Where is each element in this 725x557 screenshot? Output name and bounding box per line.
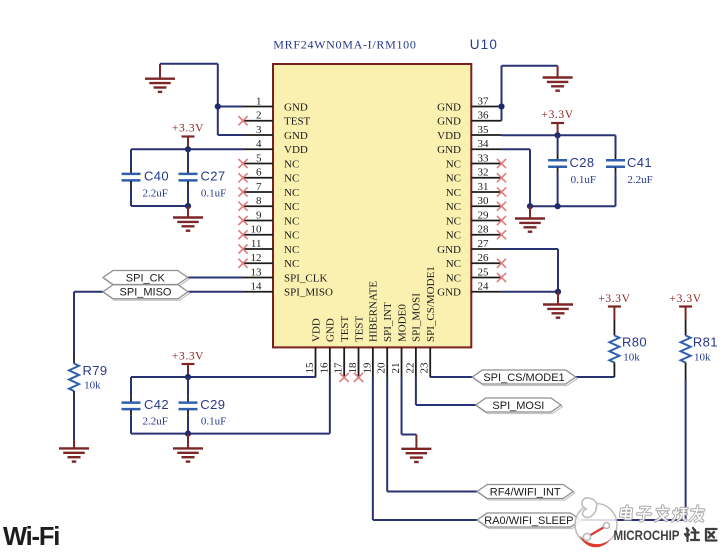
- capacitor C42: [122, 403, 141, 410]
- svg-text:21: 21: [390, 363, 402, 374]
- wire pin27: [502, 248, 559, 250]
- junction pin24: [555, 289, 561, 295]
- svg-text:0.1uF: 0.1uF: [201, 188, 226, 200]
- svg-text:2.2uF: 2.2uF: [627, 174, 652, 186]
- ground top-right: [543, 66, 573, 91]
- capacitor C28: [548, 160, 567, 167]
- svg-text:NC: NC: [284, 258, 299, 270]
- wire C40-C27 bottom rail: [131, 205, 188, 207]
- svg-text:SPI_CLK: SPI_CLK: [284, 272, 327, 284]
- U10 pin 31 (NC): [446, 181, 506, 199]
- svg-text:SPI_MOSI: SPI_MOSI: [492, 400, 544, 412]
- svg-text:2.2uF: 2.2uF: [143, 415, 168, 427]
- capacitor C27: [179, 174, 198, 181]
- wire pin1 to vertical: [218, 106, 243, 108]
- svg-text:11: 11: [251, 238, 262, 250]
- U10 pin 35 (VDD): [437, 124, 501, 142]
- U10 pin 13 (SPI_CLK): [243, 266, 327, 284]
- wire C41 bottom stem: [615, 167, 617, 206]
- label C28: [570, 155, 595, 170]
- wire SPI_MISO to pin14: [188, 291, 243, 293]
- svg-text:NC: NC: [446, 158, 461, 170]
- svg-text:+3.3V: +3.3V: [598, 293, 630, 305]
- svg-text:GND: GND: [437, 244, 461, 256]
- value 2.2uF (C41): [627, 174, 652, 186]
- designator R81: [693, 335, 718, 350]
- U10 pin 25 (NC): [446, 266, 506, 284]
- svg-text:TEST: TEST: [339, 315, 351, 342]
- value 2.2uF (C40): [143, 188, 168, 200]
- svg-text:18: 18: [347, 362, 359, 374]
- svg-text:C41: C41: [627, 155, 652, 170]
- wire pin22 to SPI_MOSI: [416, 377, 476, 405]
- svg-text:NC: NC: [446, 187, 461, 199]
- svg-text:2: 2: [256, 110, 262, 122]
- svg-text:Wi-Fi: Wi-Fi: [3, 523, 59, 551]
- wire top-left ground horizontal: [160, 63, 218, 65]
- svg-text:GND: GND: [437, 116, 461, 128]
- watermark text MICROCHIP: [614, 527, 680, 543]
- svg-text:NC: NC: [284, 187, 299, 199]
- wire C40 bottom stem: [130, 181, 132, 206]
- junction pin37: [498, 103, 504, 109]
- wire R81 down to RA0 net: [685, 380, 687, 520]
- sheet title Wi-Fi: [3, 523, 59, 551]
- power +3.3V (R80): [598, 293, 630, 321]
- wire pins27-24 vertical: [557, 249, 559, 292]
- capacitor C41: [606, 160, 625, 167]
- power +3.3V (pin 15): [172, 350, 204, 377]
- svg-text:16: 16: [318, 362, 330, 374]
- junction C29 top: [185, 374, 191, 380]
- net label SPI_MOSI: [476, 398, 563, 414]
- svg-text:SPI_CK: SPI_CK: [126, 272, 166, 284]
- wire pin21 to ground: [402, 377, 417, 434]
- svg-text:NC: NC: [446, 173, 461, 185]
- svg-text:27: 27: [478, 238, 490, 250]
- U10 pin 26 (NC): [446, 252, 506, 270]
- resistor R80: [609, 321, 619, 378]
- wire SPI_CK to pin13: [188, 277, 243, 279]
- power +3.3V (R81): [670, 293, 702, 321]
- U10 pin 34 (GND): [437, 138, 501, 156]
- junction C27 bottom: [185, 203, 191, 209]
- svg-text:3: 3: [256, 124, 262, 136]
- value 0.1uF (C29): [201, 415, 226, 427]
- wire C28 top stem: [557, 135, 559, 159]
- U10 pin 17 (TEST): [333, 315, 351, 382]
- svg-text:32: 32: [478, 167, 489, 179]
- wire bottom rail pin16: [131, 433, 330, 435]
- U10 pin 5 (NC): [238, 152, 299, 170]
- svg-text:0.1uF: 0.1uF: [571, 174, 596, 186]
- power +3.3V (pin 35): [542, 109, 574, 135]
- ground below R79: [59, 440, 89, 462]
- capacitor C40: [122, 174, 141, 181]
- wire pin15 rail: [131, 376, 316, 378]
- svg-text:14: 14: [251, 281, 263, 293]
- U10 pin 20 (SPI_INT): [376, 302, 394, 377]
- svg-text:VDD: VDD: [437, 130, 461, 142]
- svg-text:17: 17: [333, 362, 345, 374]
- wire C27 bottom stem: [187, 181, 189, 206]
- svg-text:22: 22: [404, 363, 416, 374]
- junction +3.3V pin4 rail: [185, 146, 191, 152]
- svg-text:SPI_MISO: SPI_MISO: [120, 287, 172, 299]
- svg-text:7: 7: [256, 181, 262, 193]
- resistor R79: [69, 355, 79, 400]
- U10 pin 10 (NC): [238, 224, 299, 242]
- svg-text:10k: 10k: [694, 352, 711, 364]
- designator U10: [470, 37, 498, 52]
- svg-text:NC: NC: [284, 201, 299, 213]
- U10 pin 2 (TEST): [238, 110, 310, 128]
- wire RA0/WIFI_SLEEP to R81: [581, 519, 686, 521]
- ground below C28 rail: [515, 206, 545, 232]
- svg-text:U10: U10: [470, 37, 498, 52]
- U10 pin 23 (SPI_CS/MODE1): [419, 266, 437, 377]
- label C29: [200, 397, 225, 412]
- svg-text:NC: NC: [284, 173, 299, 185]
- svg-text:SPI_INT: SPI_INT: [382, 302, 394, 342]
- value 2.2uF (C42): [143, 415, 168, 427]
- U10 pin 1 (GND): [243, 95, 308, 113]
- wire pins36-37 vertical: [501, 66, 503, 121]
- svg-text:8: 8: [256, 195, 262, 207]
- wire top-right horizontal: [502, 65, 558, 67]
- wire SPI_CS/MODE1 to R80: [576, 376, 615, 378]
- junction pin1: [215, 103, 221, 109]
- U10 pin 16 (GND): [318, 318, 336, 377]
- value 10k (R79): [84, 379, 101, 391]
- designator R79: [83, 363, 108, 378]
- svg-text:C28: C28: [570, 155, 595, 170]
- ground below C29: [173, 434, 203, 462]
- wire C42 bottom stem: [130, 410, 132, 434]
- svg-text:NC: NC: [446, 215, 461, 227]
- svg-text:2.2uF: 2.2uF: [143, 188, 168, 200]
- svg-text:NC: NC: [284, 215, 299, 227]
- svg-text:NC: NC: [446, 258, 461, 270]
- svg-text:20: 20: [376, 362, 388, 374]
- svg-text:29: 29: [478, 209, 490, 221]
- svg-text:36: 36: [478, 110, 490, 122]
- designator R80: [622, 335, 647, 350]
- wire C29 top stem: [187, 377, 189, 402]
- svg-text:TEST: TEST: [284, 116, 311, 128]
- junction C28 bottom: [555, 203, 561, 209]
- svg-text:35: 35: [478, 124, 490, 136]
- U10 pin 28 (NC): [446, 224, 506, 242]
- svg-text:MODE0: MODE0: [396, 304, 408, 342]
- label C41: [627, 155, 652, 170]
- net label SPI_CK: [103, 271, 189, 287]
- U10 pin 32 (NC): [446, 167, 506, 185]
- svg-text:R81: R81: [693, 335, 718, 350]
- U10 pin 24 (GND): [437, 281, 501, 299]
- wire pin3 to vertical: [218, 134, 243, 136]
- wire top-left ground vertical: [217, 64, 219, 135]
- wire pin19 drop (RA0/WIFI_SLEEP): [373, 377, 477, 520]
- svg-text:+3.3V: +3.3V: [542, 109, 574, 121]
- U10 pin 27 (GND): [437, 238, 501, 256]
- net label RA0/WIFI_SLEEP: [477, 513, 582, 529]
- svg-text:28: 28: [478, 224, 490, 236]
- svg-text:34: 34: [478, 138, 490, 150]
- svg-text:RF4/WIFI_INT: RF4/WIFI_INT: [490, 486, 561, 498]
- wire +3.3V rail to pin 4: [131, 148, 243, 150]
- value 0.1uF (C28): [571, 174, 596, 186]
- U10 pin 19 (HIBERNATE): [361, 281, 379, 378]
- U10 pin 14 (SPI_MISO): [243, 281, 333, 299]
- watermark text she-qu: [685, 528, 717, 541]
- svg-text:10: 10: [251, 224, 263, 236]
- svg-text:R79: R79: [83, 363, 108, 378]
- U10 pin 37 (GND): [437, 95, 501, 113]
- svg-text:1: 1: [256, 95, 262, 107]
- wire pin23 to SPI_CS/MODE1: [430, 376, 472, 378]
- svg-text:R80: R80: [622, 335, 647, 350]
- U10 pin 11 (NC): [238, 238, 299, 256]
- svg-text:33: 33: [478, 152, 490, 164]
- wire C28 bottom stem: [557, 167, 559, 206]
- svg-text:GND: GND: [284, 130, 308, 142]
- svg-text:GND: GND: [437, 287, 461, 299]
- svg-text:SPI_MISO: SPI_MISO: [284, 287, 333, 299]
- svg-text:25: 25: [478, 266, 490, 278]
- svg-text:4: 4: [256, 138, 262, 150]
- svg-text:GND: GND: [437, 144, 461, 156]
- watermark logo circle: [575, 498, 617, 547]
- wire pin20 drop (RF4/WIFI_INT): [387, 377, 477, 491]
- svg-text:NC: NC: [284, 158, 299, 170]
- value label MRF24WN0MA-I/RM100: [273, 38, 416, 52]
- svg-text:SPI_MOSI: SPI_MOSI: [411, 293, 423, 342]
- wire R79 to ground: [73, 400, 75, 441]
- svg-text:9: 9: [256, 209, 262, 221]
- label C40: [144, 168, 169, 183]
- watermark text dian-zi-fa-shao-you (outlined): [620, 506, 705, 521]
- svg-text:NC: NC: [446, 272, 461, 284]
- svg-text:23: 23: [419, 362, 431, 374]
- label C27: [201, 168, 226, 183]
- U10 pin 7 (NC): [238, 181, 299, 199]
- svg-text:RA0/WIFI_SLEEP: RA0/WIFI_SLEEP: [484, 515, 573, 527]
- capacitor C29: [179, 403, 198, 410]
- svg-text:10k: 10k: [84, 379, 101, 391]
- power +3.3V (pin 4): [172, 123, 204, 150]
- junction pin34 drop: [527, 203, 533, 209]
- svg-text:TEST: TEST: [353, 315, 365, 342]
- value 10k (R80): [623, 352, 640, 364]
- svg-text:C27: C27: [201, 168, 226, 183]
- U10 pin 21 (MODE0): [390, 304, 408, 378]
- svg-text:31: 31: [478, 181, 489, 193]
- resistor R81: [681, 321, 691, 381]
- svg-text:19: 19: [361, 362, 373, 374]
- wire C27 top stem: [187, 149, 189, 173]
- svg-text:GND: GND: [325, 318, 337, 342]
- wire pin34 to drop: [502, 149, 531, 206]
- op-amp U10 MRF24WN0MA-I/RM100 IC body: [273, 64, 471, 347]
- svg-text:NC: NC: [284, 244, 299, 256]
- U10 pin 4 (VDD): [243, 138, 308, 156]
- svg-text:15: 15: [304, 362, 316, 374]
- ground pins 24-27: [543, 292, 573, 318]
- svg-text:HIBERNATE: HIBERNATE: [368, 281, 380, 342]
- wire pin16 drop: [329, 377, 331, 433]
- U10 pin 8 (NC): [238, 195, 299, 213]
- net label RF4/WIFI_INT: [477, 485, 575, 501]
- svg-text:C29: C29: [200, 397, 225, 412]
- ground top-left: [145, 64, 175, 92]
- wire C28-C41 bottom rail: [530, 205, 616, 207]
- U10 pin 18 (TEST): [347, 315, 365, 382]
- svg-text:VDD: VDD: [284, 144, 308, 156]
- U10 pin 29 (NC): [446, 209, 506, 227]
- wire pin24: [502, 291, 559, 293]
- svg-text:SPI_CS/MODE1: SPI_CS/MODE1: [425, 266, 437, 342]
- U10 pin 9 (NC): [238, 209, 299, 227]
- svg-text:10k: 10k: [623, 352, 640, 364]
- wire C41 top stem: [615, 135, 617, 159]
- svg-text:+3.3V: +3.3V: [172, 123, 204, 135]
- ground below C27: [173, 206, 203, 231]
- U10 pin 22 (SPI_MOSI): [404, 293, 422, 378]
- svg-text:MICROCHIP: MICROCHIP: [614, 527, 680, 543]
- value 10k (R81): [694, 352, 711, 364]
- svg-text:SPI_CS/MODE1: SPI_CS/MODE1: [483, 372, 564, 384]
- U10 pin 12 (NC): [238, 252, 299, 270]
- U10 pin 36 (GND): [437, 110, 501, 128]
- svg-text:0.1uF: 0.1uF: [201, 415, 226, 427]
- svg-text:+3.3V: +3.3V: [172, 350, 204, 362]
- svg-text:NC: NC: [284, 230, 299, 242]
- svg-text:NC: NC: [446, 230, 461, 242]
- junction C29 bottom: [185, 431, 191, 437]
- svg-text:6: 6: [256, 167, 262, 179]
- ground pin21: [401, 435, 431, 463]
- wire pin35 rail: [502, 134, 616, 136]
- U10 pin 6 (NC): [238, 167, 299, 185]
- wire C40 top stem: [130, 149, 132, 173]
- svg-text:13: 13: [251, 266, 263, 278]
- wire C42 top stem: [130, 377, 132, 402]
- U10 pin 33 (NC): [446, 152, 506, 170]
- svg-text:VDD: VDD: [310, 318, 322, 342]
- U10 pin 30 (NC): [446, 195, 506, 213]
- svg-text:5: 5: [256, 152, 262, 164]
- junction C28 top: [555, 132, 561, 138]
- net label SPI_MISO: [103, 285, 190, 301]
- svg-text:GND: GND: [284, 101, 308, 113]
- svg-text:12: 12: [251, 252, 262, 264]
- wire C29 bottom stem: [187, 410, 189, 434]
- svg-text:C42: C42: [144, 397, 169, 412]
- svg-text:C40: C40: [144, 168, 169, 183]
- svg-text:30: 30: [478, 195, 490, 207]
- svg-text:NC: NC: [446, 201, 461, 213]
- U10 pin 3 (GND): [243, 124, 308, 142]
- label C42: [144, 397, 169, 412]
- value 0.1uF (C27): [201, 188, 226, 200]
- svg-text:MRF24WN0MA-I/RM100: MRF24WN0MA-I/RM100: [273, 38, 416, 52]
- svg-text:GND: GND: [437, 101, 461, 113]
- svg-text:26: 26: [478, 252, 490, 264]
- U10 pin 15 (VDD): [304, 318, 322, 377]
- svg-text:24: 24: [478, 281, 490, 293]
- wire SPI_MISO left: [74, 292, 103, 355]
- svg-text:+3.3V: +3.3V: [670, 293, 702, 305]
- net label SPI_CS/MODE1: [472, 370, 577, 386]
- svg-text:37: 37: [478, 95, 490, 107]
